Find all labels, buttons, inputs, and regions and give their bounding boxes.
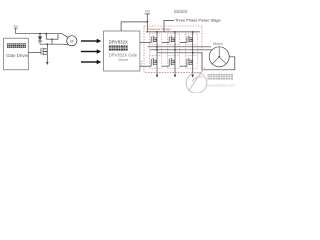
transistor Q2 high side A — [151, 36, 157, 43]
diode D1 — [38, 34, 42, 45]
wire column C vertical — [192, 32, 194, 75]
junction bus col3 — [192, 31, 194, 33]
label U1 Chinese 栅极驱动器 — [7, 43, 26, 48]
transistor Q6 low side B — [169, 58, 175, 66]
arrow 3 — [81, 60, 101, 65]
power VM label — [145, 9, 150, 13]
svg-text:Customer Design: Customer Design — [147, 27, 171, 31]
svg-text:www.elecfans.com: www.elecfans.com — [207, 83, 235, 87]
junction phase-drain — [46, 43, 48, 45]
svg-text:DRV832X Gate: DRV832X Gate — [109, 52, 138, 57]
wire drain ladder — [46, 34, 58, 45]
power Vcc label — [13, 24, 18, 28]
arrow 2 — [81, 49, 101, 54]
block U2 DRV832X box — [104, 31, 140, 71]
motor M2 — [209, 47, 229, 67]
junction bus col2 — [174, 31, 176, 33]
label U2 DRV832X — [109, 40, 128, 45]
label U1 Gate Driver — [6, 53, 29, 58]
wire column B vertical — [174, 32, 176, 75]
ground arrow C — [191, 75, 194, 78]
junction phase C — [192, 52, 194, 54]
watermark logo — [186, 68, 207, 94]
motor M2 label — [213, 41, 224, 46]
transistor Q7 low side C — [187, 58, 193, 66]
dashed cell column 3 — [186, 34, 198, 68]
power VM rail stub — [145, 14, 150, 22]
motor M1 small — [67, 36, 77, 46]
wire phase A — [148, 46, 212, 48]
wire VM to U2 — [121, 22, 147, 31]
pin dots U2 right edge — [141, 61, 142, 67]
power Vcc rail stub — [14, 28, 18, 34]
label three phase power stage Chinese 三相功率级 — [174, 10, 187, 13]
svg-text:Gate Driver: Gate Driver — [6, 53, 29, 58]
svg-text:Vcc: Vcc — [13, 24, 18, 28]
ground arrow A — [156, 75, 159, 78]
ground arrow B — [174, 75, 177, 78]
transistor Q5 low side A — [151, 58, 157, 66]
block U1 gate driver box — [4, 38, 29, 70]
svg-text:M: M — [70, 39, 73, 44]
transistor Q1 — [28, 44, 47, 62]
ground arrow left — [46, 62, 49, 65]
label U2 Chinese 栅极驱动 — [109, 46, 128, 51]
watermark text 电子发烧友 — [208, 74, 234, 80]
svg-text:Driver: Driver — [119, 58, 129, 62]
wire top rail — [16, 34, 68, 38]
junction phase A — [156, 46, 158, 48]
wire phase B — [150, 49, 212, 51]
dashed cell column 2 — [168, 34, 180, 68]
wire gate bus bottom row — [140, 65, 187, 67]
label Customer Design red — [147, 27, 171, 31]
outer dashed box power stage — [144, 26, 202, 72]
svg-text:Three Phase Power Stage: Three Phase Power Stage — [175, 18, 221, 23]
junction rail-diode — [39, 33, 41, 35]
svg-text:Motor: Motor — [213, 41, 224, 46]
transistor Q4 high side C — [187, 36, 193, 43]
wire phase C — [157, 53, 235, 70]
junction bus col1 — [156, 31, 158, 33]
transistor Q3 high side B — [169, 36, 175, 43]
junction rail-drain — [45, 33, 47, 35]
junction phase B — [156, 49, 176, 51]
wire column A vertical — [156, 32, 158, 75]
watermark url — [207, 83, 235, 87]
dashed cell column 1 — [150, 34, 162, 68]
svg-text:DRV832X: DRV832X — [109, 40, 128, 45]
wire phase node to motor — [40, 43, 68, 46]
wire gate bus top row — [140, 41, 187, 43]
wire VM drop to bus — [146, 22, 148, 32]
label Three Phase Power Stage with leader — [164, 18, 221, 32]
junction ladder — [51, 38, 53, 40]
arrow 1 — [81, 39, 101, 44]
junction VM node — [146, 21, 148, 23]
svg-text:VM: VM — [145, 9, 150, 13]
label U2 DRV832X Gate Driver — [109, 52, 138, 62]
wire top bus VM — [146, 31, 200, 33]
